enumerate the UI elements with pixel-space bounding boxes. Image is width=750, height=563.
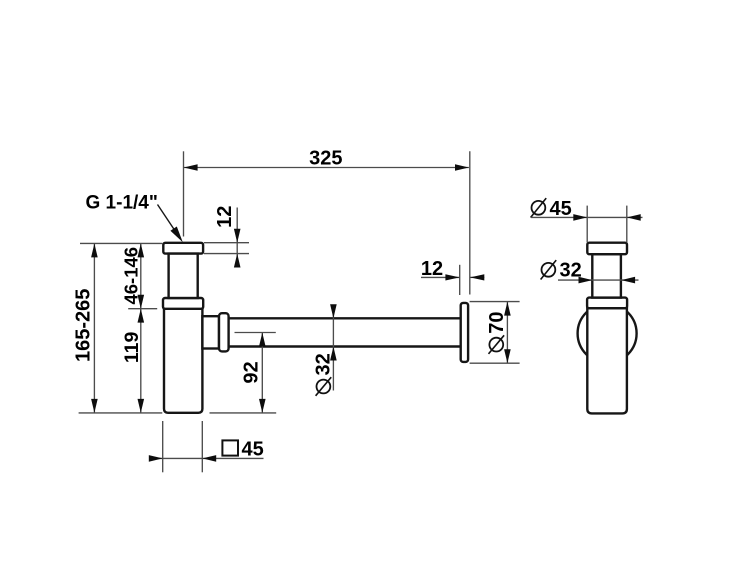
thread label G 1-1/4": text (86, 193, 158, 214)
dimension diameter 32 (side view): value label (560, 259, 582, 281)
dimension 325: left arrowhead (184, 164, 198, 171)
front view: pipe compression nut (219, 313, 229, 351)
dimension 92: bottom arrowhead (259, 399, 266, 413)
dimension 46-146: top arrowhead (138, 244, 145, 258)
dimension diameter 45 (side view): left extension line (586, 206, 588, 243)
dimension diameter 45 (side view): dimension line (531, 216, 643, 218)
dimension 46-146: dimension line (140, 243, 142, 308)
dimension diameter 32 (pipe): value label rotated (313, 353, 335, 375)
svg-text:45: 45 (550, 198, 572, 220)
dimension 119: bottom arrowhead (138, 399, 145, 413)
dimension diameter 45 (side view): diameter symbol circle (532, 201, 546, 215)
dimension 12 (wall flange thickness): left extension line (459, 265, 461, 295)
dimension 12 (wall flange thickness): right arrowhead (470, 274, 484, 280)
dimension 119: dimension line (140, 309, 142, 413)
dimension 92: top arrowhead (259, 333, 266, 347)
dimension 92: top tick line at pipe axis (235, 332, 276, 334)
front view: body top collar nut (163, 298, 203, 309)
dimension square 45: right extension line (201, 421, 203, 472)
thread label G 1-1/4": leader arrowhead (170, 227, 182, 243)
dimension 46-146: bottom arrowhead (138, 295, 145, 309)
svg-text:46-146: 46-146 (120, 247, 141, 305)
dimension 165-265: dimension line (93, 243, 95, 413)
dimension diameter 70: value label rotated (486, 311, 508, 333)
dimension diameter 70: bottom extension line (470, 362, 520, 364)
dimension 12 (inlet flange height): upper arrowhead (234, 229, 241, 243)
dimension square 45: square symbol (222, 440, 238, 455)
dimension diameter 32 (side view): right arrowhead (621, 277, 635, 284)
dimension diameter 70: dimension line (506, 302, 508, 364)
dimension diameter 32 (side view): left arrowhead (579, 277, 593, 284)
dimension 12 (wall flange thickness): dimension line left segment (421, 276, 460, 278)
dimension diameter 32 (pipe): diameter symbol slash (316, 377, 332, 396)
svg-text:32: 32 (560, 259, 582, 281)
side view: decorative sphere circle (578, 304, 637, 363)
dimension square 45: dimension line (149, 457, 264, 459)
dimension diameter 32 (side view): dimension line (558, 279, 639, 281)
dimension 165-265: top extension line (80, 242, 162, 244)
dimension 325: right arrowhead (455, 164, 469, 171)
dimension square 45: left arrowhead (149, 455, 163, 462)
dimension diameter 45 (side view): value label (550, 198, 572, 220)
dimension diameter 45 (side view): right arrowhead (627, 214, 641, 221)
dimension 119: value label rotated (121, 332, 143, 364)
svg-text:12: 12 (421, 258, 443, 280)
dimension diameter 32 (pipe): dimension line (332, 305, 334, 391)
dimension 12 (inlet flange height): lower arrowhead (234, 254, 241, 268)
front view: inlet top flange (163, 243, 203, 254)
dimension 165-265: bottom extension line (79, 412, 163, 414)
dimension 12 (inlet flange height): top extension line (204, 242, 249, 244)
svg-text:12: 12 (214, 206, 236, 228)
dimension diameter 70: bottom arrowhead (504, 349, 511, 363)
dimension diameter 32 (side view): diameter symbol slash (541, 260, 557, 279)
dimension diameter 45 (side view): left arrowhead (573, 214, 587, 221)
dimension diameter 32 (pipe): diameter symbol circle (317, 380, 331, 394)
dimension 92: bottom extension line (210, 412, 277, 414)
dimension 165-265: top arrowhead (91, 244, 98, 258)
dimension 119: top arrowhead (138, 309, 145, 323)
dimension 12 (wall flange thickness): value label (421, 258, 443, 280)
dimension diameter 70: diameter symbol circle (489, 338, 503, 352)
front view: outlet stub to pipe (202, 316, 219, 348)
dimension diameter 70: top arrowhead (504, 302, 511, 316)
front view: trap body (bottle) (164, 309, 202, 413)
svg-text:45: 45 (242, 439, 264, 461)
dimension square 45: left extension line (162, 421, 164, 472)
dimension 12 (wall flange thickness): dimension line right segment (470, 276, 484, 278)
side view: trap body tube (587, 308, 627, 413)
dimension 12 (inlet flange height): dimension line (236, 208, 238, 267)
dimension 325: left extension line (183, 151, 185, 236)
svg-text:G 1-1/4": G 1-1/4" (86, 193, 158, 214)
dimension diameter 45 (side view): right extension line (626, 206, 628, 243)
svg-text:325: 325 (309, 147, 342, 169)
dimension 325: right extension line (469, 151, 471, 294)
dimension 92: dimension line (261, 333, 263, 413)
side view: body top collar nut (587, 298, 627, 309)
dimension diameter 32 (pipe): lower arrowhead (330, 347, 337, 361)
front view: wall escutcheon flange (461, 303, 468, 362)
dimension diameter 45 (side view): diameter symbol slash (531, 198, 547, 217)
dimension square 45: right arrowhead (202, 455, 216, 462)
svg-text:32: 32 (313, 353, 335, 375)
dimension 12 (wall flange thickness): left arrowhead (445, 274, 459, 280)
svg-text:92: 92 (240, 361, 262, 383)
svg-text:165-265: 165-265 (73, 289, 95, 362)
dimension square 45: value label (242, 439, 264, 461)
dimension diameter 70: top extension line (470, 301, 520, 303)
dimension 325: value label (309, 147, 342, 169)
side view: inlet neck tube (592, 254, 621, 297)
dimension 165-265: bottom arrowhead (91, 399, 98, 413)
svg-text:119: 119 (121, 332, 143, 364)
front view: inlet neck tube (169, 254, 198, 298)
dimension 165-265: value label rotated (73, 289, 95, 362)
front view: horizontal pipe bottom line (229, 345, 460, 347)
front view: horizontal pipe top line (229, 317, 460, 319)
svg-text:70: 70 (486, 311, 508, 333)
dimension diameter 32 (side view): diameter symbol circle (542, 263, 556, 277)
dimension 46-146: intermediate tick line (128, 308, 157, 310)
dimension 92: value label rotated (240, 361, 262, 383)
dimension 325: dimension line (184, 167, 469, 169)
dimension diameter 32 (pipe): upper arrowhead (330, 304, 337, 318)
side view: inlet top flange (587, 243, 627, 255)
dimension 12 (inlet flange height): bottom extension line (204, 253, 249, 255)
thread label G 1-1/4": leader line (158, 205, 180, 238)
dimension 46-146: value label rotated (120, 247, 141, 305)
dimension diameter 70: diameter symbol slash (489, 335, 505, 354)
dimension 12 (inlet flange height): value label rotated (214, 206, 236, 228)
